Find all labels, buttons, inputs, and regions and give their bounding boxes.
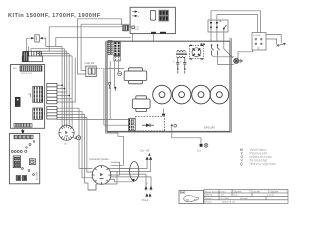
- wires into HF connector: [57, 119, 129, 121]
- plus output terminal: [197, 144, 208, 153]
- wire from HF board down right: [153, 34, 155, 42]
- capacitor C2 with arrow: [183, 61, 186, 74]
- wire to board edge: [56, 36, 131, 38]
- svg-text:trafo HF: trafo HF: [85, 61, 95, 65]
- relay block on board A2: [13, 156, 20, 168]
- wire Q inner to X1: [217, 15, 258, 33]
- svg-text:Vykresl.: Vykresl.: [205, 194, 213, 197]
- trimmer on board A2: [29, 159, 35, 165]
- round torch connector CON1: [59, 125, 74, 140]
- svg-text:1-f 230V: 1-f 230V: [253, 35, 261, 37]
- wire pins to right: [212, 55, 234, 57]
- arrow input 1 on HF board: [132, 11, 137, 13]
- pad on HF box top: [162, 114, 165, 116]
- wire R right down-right: [44, 38, 62, 46]
- aux transformer T3: [176, 51, 187, 61]
- vertical wire bundle to round connector: [62, 46, 75, 127]
- svg-text:xx: xx: [64, 142, 67, 145]
- small mark on board A1: [29, 94, 31, 97]
- wires comb C1 rungs to bundle: [57, 85, 75, 102]
- svg-text:1500HF,: 1500HF,: [234, 191, 243, 193]
- svg-text:SV1 4.5 V1: SV1 4.5 V1: [21, 73, 33, 75]
- trafo HF box: [86, 66, 97, 77]
- toroid L4: [210, 85, 229, 104]
- logo box: [179, 191, 204, 204]
- wire into T1: [107, 68, 124, 70]
- board A2 bottom connectors: [16, 176, 26, 181]
- svg-text:1700HF,: 1700HF,: [252, 191, 261, 193]
- diode D1 in HF box: [142, 123, 154, 127]
- svg-text:Vydani PLUS: Vydani PLUS: [222, 202, 235, 204]
- arrow input 2 on HF board: [132, 15, 137, 17]
- board A2 pads row: [11, 141, 35, 153]
- svg-text:EPSx145: EPSx145: [204, 126, 215, 130]
- plug arrow right of R: [40, 37, 44, 39]
- thermostat switch on EPS edge: [109, 82, 117, 91]
- mains plug arrow: [277, 43, 287, 47]
- wire vertical drop left: [48, 27, 50, 52]
- wire R left down to connector: [27, 38, 31, 51]
- junction at loop bottom: [132, 179, 134, 181]
- edge connector comb C1: [47, 84, 57, 104]
- svg-text:List (1): List (1): [268, 194, 275, 197]
- legend: [240, 148, 276, 166]
- svg-text:b: b: [138, 16, 140, 18]
- board A1 top connector strip: [20, 66, 42, 71]
- wire from HF-board to trafo (lower): [81, 24, 130, 70]
- connector block J2 on board A1: [33, 86, 43, 102]
- mains terminal block X1: [208, 20, 228, 32]
- junction dots on bundle: [61, 84, 70, 96]
- svg-text:Q: Q: [240, 162, 243, 166]
- torch connector CON2: [92, 166, 111, 185]
- wire filter to board: [128, 26, 131, 28]
- svg-text:1900HF: 1900HF: [271, 191, 279, 193]
- svg-text:WR: WR: [13, 68, 17, 70]
- EMI filter component left of HF board: [123, 25, 129, 31]
- HF unit dashed box: [135, 117, 164, 131]
- input ladder connector on EPS: [107, 41, 112, 55]
- svg-text:+: +: [180, 61, 182, 64]
- cable loop ellipse: [130, 162, 139, 182]
- svg-text:A2-0409: A2-0409: [36, 171, 39, 180]
- long wire left of EPS: [106, 41, 124, 136]
- wires comb C2 to fan connector: [57, 108, 96, 190]
- junction and output wire to plus: [171, 124, 201, 143]
- svg-text:Proud: Proud: [142, 199, 149, 202]
- wire Q to plug upper: [266, 35, 282, 43]
- plug arrow left of R: [30, 37, 34, 39]
- fuse pins on EPS top right: [211, 44, 220, 55]
- arrows to torch: [145, 186, 153, 197]
- thermistor circle on EPS: [118, 72, 122, 76]
- wires CON2 to cable loop: [88, 161, 151, 190]
- svg-text:KITin 1500HF, 1700HF, 1900HF: KITin 1500HF, 1700HF, 1900HF: [8, 13, 101, 19]
- small part on EPS top edge: [201, 43, 205, 45]
- output transformer T2: [132, 96, 150, 112]
- wire long horizontal to filter: [49, 26, 123, 28]
- main transformer T1: [124, 68, 147, 84]
- capacitor block on HF board: [150, 11, 155, 21]
- connector comb K1 above board: [22, 51, 42, 61]
- nested corner wires into vertical bundle: [29, 46, 73, 56]
- svg-text:Konektor horaku: Konektor horaku: [90, 157, 110, 161]
- cable clamp at CON1: [73, 136, 80, 140]
- svg-text:R12: R12: [135, 29, 140, 31]
- HF spark board outline (top right): [130, 7, 175, 33]
- toroid L2: [172, 85, 191, 104]
- HF board bottom pads: [151, 32, 166, 34]
- arrow between boards: [21, 129, 24, 134]
- bridge rectifier B1: [189, 45, 203, 59]
- connector block J3 on board A1: [33, 108, 43, 119]
- wire Q bottom to grommet: [238, 50, 253, 59]
- power board EPS outline: [107, 41, 230, 131]
- edge connector comb C2: [47, 107, 57, 119]
- svg-text:Q: Q: [257, 46, 260, 50]
- wire Q up over to X1: [211, 11, 261, 33]
- svg-text:Schvalil: Schvalil: [240, 198, 248, 200]
- HF output connector on EPS: [129, 118, 136, 130]
- svg-text:Do - HF: Do - HF: [141, 149, 150, 153]
- toroid L1: [153, 85, 172, 104]
- arrows to HF: [146, 153, 152, 161]
- component U5 dark on board A1: [15, 97, 20, 106]
- svg-text:C11: C11: [135, 27, 139, 29]
- svg-text:+: +: [173, 61, 175, 64]
- svg-text:a: a: [138, 12, 140, 14]
- cable grommet right of EPS: [234, 58, 244, 63]
- small part bottom-left of HF board: [132, 26, 140, 31]
- toroid L3: [192, 85, 211, 104]
- capacitor C1 with arrow: [176, 61, 179, 74]
- wires X1 down to board: [211, 27, 233, 57]
- control board A1 outline: [11, 65, 45, 129]
- svg-text:Zmena: Zmena: [205, 202, 213, 204]
- wire vertical drop 2: [55, 37, 57, 46]
- wire from EPS bottom to CON2: [111, 136, 124, 165]
- wire from HF-board to trafo (upper): [78, 19, 122, 74]
- svg-text:(+): (+): [197, 149, 200, 153]
- svg-text:Datum: Datum: [205, 197, 212, 200]
- svg-text:Tr: Tr: [145, 182, 147, 185]
- pads lower on board A2: [22, 168, 35, 176]
- svg-text:Nazev Schema KITin: Nazev Schema KITin: [205, 191, 226, 193]
- spark gap grid on HF board: [159, 10, 169, 22]
- svg-text:Hlavni vypinac: Hlavni vypinac: [250, 162, 277, 166]
- title block table: [204, 190, 288, 204]
- svg-text:EHO: EHO: [180, 192, 185, 195]
- wires below input block: [109, 61, 111, 120]
- wire Q to plug lower: [266, 39, 277, 44]
- wire pad up: [163, 109, 165, 114]
- svg-text:5.1.2005: 5.1.2005: [221, 198, 230, 200]
- panel board A2 outline: [9, 134, 39, 184]
- wire from HF board down left: [131, 34, 133, 42]
- wires through loop: [117, 161, 151, 187]
- board A2 top connector strip: [14, 135, 33, 139]
- board A1 bottom connector strip: [14, 123, 32, 127]
- input block dark on EPS: [114, 42, 120, 61]
- dashed link trafo to EPS: [96, 68, 107, 70]
- resistor R box: [35, 35, 40, 42]
- main switch Q box: [252, 33, 266, 50]
